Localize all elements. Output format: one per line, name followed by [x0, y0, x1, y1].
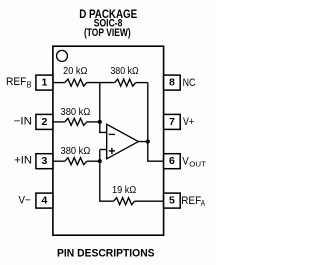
svg-text:B: B [27, 80, 32, 90]
svg-text:7: 7 [169, 116, 175, 128]
svg-text:A: A [201, 198, 206, 208]
svg-text:20 kΩ: 20 kΩ [63, 66, 88, 77]
svg-text:1: 1 [41, 77, 47, 89]
svg-text:3: 3 [41, 155, 47, 167]
svg-text:PIN DESCRIPTIONS: PIN DESCRIPTIONS [57, 247, 155, 259]
svg-text:380 kΩ: 380 kΩ [61, 107, 91, 118]
svg-text:4: 4 [41, 195, 47, 207]
svg-text:19 kΩ: 19 kΩ [112, 185, 136, 196]
svg-text:NC: NC [183, 77, 196, 89]
svg-text:−IN: −IN [14, 115, 32, 127]
svg-text:380 kΩ: 380 kΩ [61, 146, 91, 157]
svg-text:V+: V+ [183, 116, 194, 128]
svg-text:2: 2 [41, 116, 47, 128]
svg-text:380 kΩ: 380 kΩ [110, 66, 139, 77]
svg-text:8: 8 [169, 77, 175, 89]
svg-text:REF: REF [181, 195, 201, 207]
svg-text:6: 6 [169, 155, 175, 167]
svg-text:REF: REF [6, 76, 27, 88]
svg-text:(TOP VIEW): (TOP VIEW) [84, 27, 131, 39]
svg-text:V−: V− [19, 194, 31, 206]
svg-text:+IN: +IN [14, 155, 32, 167]
svg-text:5: 5 [169, 195, 175, 207]
svg-text:OUT: OUT [189, 159, 206, 168]
